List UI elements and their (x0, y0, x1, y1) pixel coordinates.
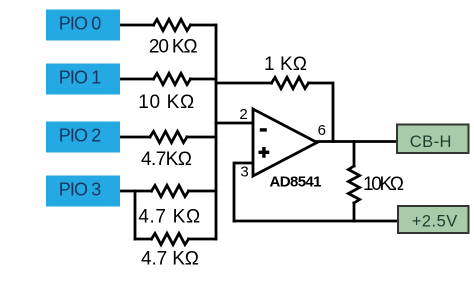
resistor R2 10 KΩ (154, 73, 191, 84)
wire bus to op-amp pin 2 inverting input (216, 122, 253, 125)
wire from resistor R4 to summing bus (189, 190, 217, 193)
resistor R6 1 KΩ feedback (272, 77, 309, 88)
resistor R1 20 KΩ (154, 19, 191, 30)
svg-text:+2.5V: +2.5V (412, 213, 458, 231)
resistor R5 4.7 KΩ (parallel) (152, 233, 189, 244)
wire from branch to resistor R5 (135, 238, 152, 241)
svg-text:1 KΩ: 1 KΩ (264, 54, 307, 75)
PIO 0 input box (46, 10, 120, 41)
resistor R7 10KΩ vertical (348, 166, 359, 203)
svg-text:20 KΩ: 20 KΩ (149, 36, 198, 57)
CB-H output box (397, 125, 469, 154)
svg-text:4.7 KΩ: 4.7 KΩ (141, 249, 199, 270)
wire +2.5V rail (234, 220, 398, 223)
wire from PIO 0 to resistor R1 (121, 24, 154, 27)
wire resistor R7 to +2.5V rail (353, 203, 356, 221)
svg-text:3: 3 (240, 164, 248, 181)
wire from bus to feedback resistor R6 (216, 82, 272, 85)
resistor R3 4.7KΩ (150, 131, 187, 142)
svg-text:2: 2 (239, 106, 247, 123)
svg-text:AD8541: AD8541 (270, 174, 322, 191)
wire from R6 to feedback corner (309, 83, 334, 142)
wire branch down from PIO 3 node (134, 191, 137, 239)
svg-text:10 KΩ: 10 KΩ (138, 92, 194, 113)
wire from resistor R5 to bus bottom (189, 238, 217, 241)
svg-text:PIO 2: PIO 2 (59, 126, 102, 146)
wire output node to resistor R7 (353, 142, 356, 167)
op-amp minus symbol (260, 128, 267, 131)
svg-text:4.7 KΩ: 4.7 KΩ (138, 207, 200, 228)
PIO 1 input box (46, 64, 120, 95)
svg-text:PIO 0: PIO 0 (59, 14, 102, 34)
wire from PIO 3 to resistor R4 (121, 190, 152, 193)
+2.5V supply box (398, 206, 469, 233)
svg-text:4.7KΩ: 4.7KΩ (141, 149, 192, 170)
wire from PIO 1 to resistor R2 (121, 78, 154, 81)
svg-text:6: 6 (318, 122, 326, 139)
svg-text:PIO 1: PIO 1 (59, 68, 102, 88)
PIO 2 input box (46, 122, 120, 153)
op-amp plus symbol (259, 147, 270, 158)
wire op-amp pin 3 non-inverting input (234, 163, 253, 221)
wire op-amp output pin 6 to CB-H (317, 140, 397, 143)
wire from PIO 2 to resistor R3 (121, 136, 150, 139)
PIO 3 input box (46, 176, 120, 207)
wire from resistor R1 to summing bus (191, 24, 217, 27)
op-amp U1 AD8541 triangle (253, 109, 317, 176)
svg-text:10KΩ: 10KΩ (363, 174, 404, 195)
wire from resistor R2 to summing bus (191, 78, 217, 81)
wire from resistor R3 to summing bus (187, 136, 216, 139)
svg-text:PIO 3: PIO 3 (59, 180, 102, 200)
resistor R4 4.7 KΩ (152, 185, 189, 196)
svg-text:CB-H: CB-H (410, 133, 452, 151)
summing bus vertical wire (215, 25, 218, 239)
